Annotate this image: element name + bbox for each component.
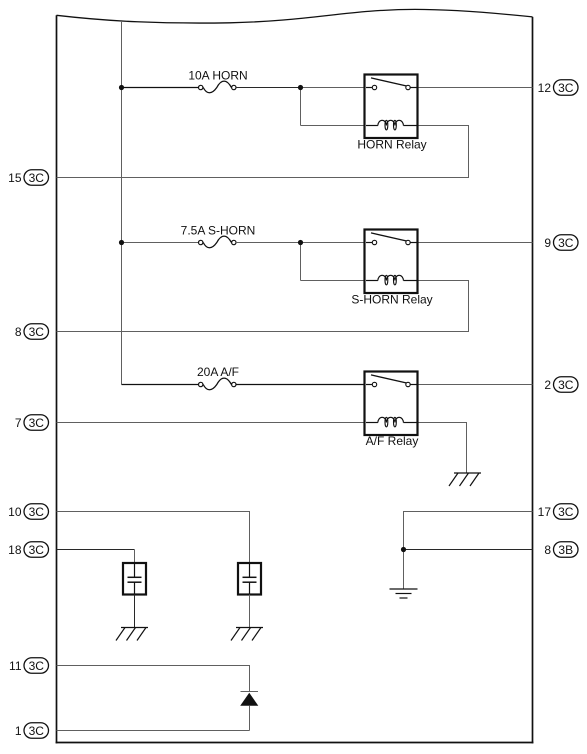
svg-text:A/F Relay: A/F Relay: [366, 434, 419, 448]
svg-text:1: 1: [15, 724, 22, 738]
svg-text:10A HORN: 10A HORN: [188, 69, 247, 83]
svg-text:9: 9: [544, 236, 551, 250]
svg-text:18: 18: [8, 543, 22, 557]
svg-text:HORN Relay: HORN Relay: [357, 138, 426, 152]
svg-text:11: 11: [9, 659, 22, 673]
svg-text:10: 10: [8, 505, 22, 519]
svg-text:12: 12: [538, 81, 552, 95]
svg-text:7: 7: [15, 416, 22, 430]
svg-text:20A A/F: 20A A/F: [197, 365, 239, 379]
svg-text:2: 2: [544, 378, 551, 392]
svg-text:15: 15: [8, 171, 22, 185]
svg-text:8: 8: [15, 325, 22, 339]
svg-text:3B: 3B: [558, 543, 573, 557]
svg-text:17: 17: [538, 505, 552, 519]
svg-text:8: 8: [544, 543, 551, 557]
svg-text:S-HORN Relay: S-HORN Relay: [351, 293, 432, 307]
svg-text:7.5A S-HORN: 7.5A S-HORN: [181, 224, 256, 238]
